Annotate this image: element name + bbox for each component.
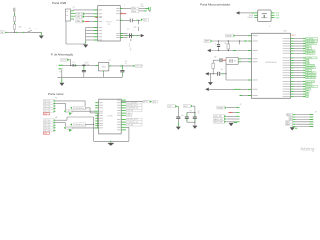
svg-text:CONTROLE_A: CONTROLE_A (74, 124, 87, 127)
label IC2 (109, 60, 112, 62)
wire battery out (63, 65, 73, 66)
wire RXD row (139, 10, 151, 11)
tiny label v (124, 4, 125, 6)
JP pin stubs left (254, 13, 258, 18)
JP pin labels left (248, 15, 254, 19)
label CONTROLE A (70, 123, 87, 127)
svg-text:PC1: PC1 (306, 89, 309, 91)
IC3 designator (284, 31, 287, 33)
svg-text:fritzing: fritzing (301, 146, 315, 151)
wire caps join (187, 119, 196, 123)
ground GND5 (176, 127, 181, 130)
wire battery gnd (61, 69, 63, 77)
wire stub down (133, 20, 138, 28)
label CONTROLE B (70, 106, 87, 110)
svg-text:Porta motor: Porta motor (48, 92, 64, 96)
bus wire 2 (86, 30, 98, 32)
wire gnd stub (130, 39, 133, 51)
svg-text:J3: J3 (315, 111, 317, 113)
resistor R5 (224, 40, 229, 50)
svg-text:PB1: PB1 (306, 48, 309, 50)
svg-text:(T1)PD5: (T1)PD5 (306, 58, 312, 60)
svg-text:Porta Microcontrolador: Porta Microcontrolador (200, 3, 230, 7)
green arrow A (69, 129, 72, 132)
wire gnd stem (110, 141, 112, 143)
capacitor C13 (193, 113, 197, 119)
svg-text:3V3: 3V3 (141, 6, 144, 8)
connector B labels (43, 98, 57, 113)
capacitor C5 (129, 33, 132, 38)
label 100n row1 (131, 7, 139, 10)
svg-text:(RXD)PD0: (RXD)PD0 (306, 86, 314, 88)
wire green seg1 (5, 31, 7, 33)
svg-text:S1: S1 (29, 28, 31, 30)
section title Porta motor (48, 92, 64, 96)
section title P de Alimentacao (51, 53, 74, 57)
connector X1 label (73, 7, 75, 9)
JP1 glyph (261, 13, 268, 18)
capacitor C11 (176, 110, 183, 119)
wire row2 (213, 40, 252, 44)
ground GND4 (107, 143, 114, 146)
svg-text:7805: 7805 (101, 66, 105, 68)
svg-text:Porta USB: Porta USB (52, 1, 66, 5)
svg-text:(SCK)PB5: (SCK)PB5 (306, 38, 313, 40)
wire X1 shield down (66, 21, 83, 44)
svg-text:IC2: IC2 (109, 60, 112, 62)
wire VCC motor (121, 100, 143, 102)
label GND short (126, 114, 131, 117)
J3 labels (286, 113, 293, 126)
label VCC MOTOR (143, 100, 157, 103)
label J2 (240, 104, 242, 106)
IC4 left pin stubs (95, 103, 99, 126)
label reset row (226, 34, 236, 37)
svg-text:RESET: RESET (218, 107, 225, 109)
ISP row3 (214, 115, 240, 118)
wire B row1 (56, 101, 86, 106)
label OUT B (64, 110, 73, 113)
ground flag ISP (229, 123, 237, 127)
svg-text:22p: 22p (221, 69, 224, 71)
IC1 FT232RL body (98, 6, 121, 41)
labels MOTOR right bottom (126, 118, 142, 126)
wire branch left (187, 113, 195, 117)
section Porta USB title (52, 1, 66, 5)
label vertical tiny (13, 8, 15, 12)
J3 vertical (292, 126, 294, 129)
bus vertical (85, 28, 87, 44)
svg-text:VCC 5V: VCC 5V (136, 66, 143, 68)
wire ctrlB right (86, 108, 98, 113)
IC4 internal label (107, 116, 113, 118)
connector A labels (43, 116, 57, 132)
arrow left JP (236, 11, 240, 14)
wire q2 out1 (238, 58, 251, 60)
svg-text:(INT0)PD1: (INT0)PD1 (306, 67, 314, 69)
connector X1 body (66, 9, 71, 21)
IC4 right pin stubs (121, 100, 126, 130)
wire vertical (14, 8, 16, 33)
IC4 pin name text (100, 100, 121, 131)
svg-text:1u: 1u (215, 44, 217, 46)
svg-text:P1: P1 (306, 91, 308, 93)
label row4 (76, 20, 85, 23)
ISP row5 (214, 120, 240, 123)
capacitor C10 (217, 72, 226, 76)
battery J1 (59, 65, 63, 74)
svg-text:DC IN: DC IN (61, 60, 67, 62)
wire reg gnd pin (103, 71, 104, 77)
svg-text:L293D: L293D (107, 116, 113, 118)
label USB_DP (76, 15, 85, 18)
wire fuse to reg (83, 65, 98, 66)
ground GND2 (83, 44, 88, 48)
label DC IN (61, 58, 70, 61)
fritzing watermark (301, 146, 315, 151)
label C12 value (190, 111, 200, 115)
IC1 pin name text (99, 8, 120, 40)
IC3 ATMEGA body (252, 33, 291, 98)
svg-text:e: e (36, 28, 37, 30)
J3 wires (293, 115, 314, 127)
wire xtal vert (212, 60, 214, 74)
wire green seg2 (16, 31, 18, 33)
battery plus (56, 64, 58, 66)
svg-text:P2: P2 (306, 96, 308, 98)
wire 3v3 cluster row3 (120, 37, 127, 39)
wire green seg3 (22, 31, 24, 33)
X1 pin3 stub (71, 15, 76, 17)
label USB_DM (76, 12, 85, 15)
svg-text:10k: 10k (19, 26, 22, 28)
svg-text:PD0: PD0 (306, 70, 309, 72)
svg-text:ATMEGA328: ATMEGA328 (266, 61, 277, 64)
crystal Q1 (130, 19, 136, 23)
wire row DM to IC (85, 13, 97, 15)
diode D1 (73, 62, 76, 67)
wire IC4 right gnd (126, 127, 129, 141)
wire green vseg1 (14, 13, 16, 15)
IC3 right pin net labels (291, 38, 318, 99)
svg-text:MOSI: MOSI (249, 15, 254, 17)
ISP row4 (214, 118, 240, 121)
wire green to junction (136, 20, 140, 21)
wire gnd drop (61, 77, 63, 82)
label net2 (183, 105, 193, 108)
wire xtal main (209, 73, 217, 74)
svg-text:Y2: Y2 (198, 111, 200, 113)
wire green vseg2 (14, 22, 16, 24)
capacitor C8 (215, 41, 221, 51)
svg-text:(INT1)PD2: (INT1)PD2 (306, 65, 314, 67)
IC1 internal label (106, 22, 111, 26)
label TXLED (141, 18, 149, 21)
wire reset row (236, 35, 252, 37)
label row2 AREF (204, 40, 213, 43)
svg-text:10u: 10u (87, 64, 90, 66)
wire 3v3 cluster row2 (120, 35, 134, 37)
wire row3 (211, 50, 252, 51)
green arrow B (69, 112, 72, 115)
svg-text:P0: P0 (306, 94, 308, 96)
svg-text:PD4: PD4 (306, 60, 309, 62)
JP1 designator (269, 26, 270, 28)
label 100n row2 (131, 10, 139, 13)
resistor R1 (14, 16, 16, 21)
capacitor C9 (214, 57, 226, 71)
svg-text:IC3: IC3 (284, 31, 287, 33)
section title Porta Microcontrolador (200, 3, 230, 7)
svg-text:X1: X1 (73, 7, 75, 9)
svg-text:10u: 10u (181, 115, 184, 117)
wire stub down2 (138, 27, 140, 31)
X1 pin1 wire (71, 10, 98, 11)
ground GND1 (39, 36, 44, 39)
resistor R2 (14, 24, 16, 29)
wire after label (139, 8, 149, 10)
red label A (43, 132, 49, 135)
wire red seg row (85, 21, 98, 23)
svg-text:AN4: AN4 (286, 123, 290, 126)
wire diode out (75, 64, 82, 66)
label gnd (129, 43, 131, 47)
crystal Q2 body (226, 57, 238, 64)
svg-text:A2: A2 (290, 118, 292, 121)
wire net2 down (194, 122, 196, 125)
svg-text:RESET: RESET (226, 35, 233, 37)
wire row bottom (209, 88, 252, 90)
arrow left row3 (207, 49, 211, 52)
svg-text:1: 1 (103, 74, 104, 76)
wire from label (69, 60, 70, 66)
wire net1 (177, 106, 178, 109)
svg-text:C8: C8 (190, 111, 192, 113)
label OUT A (64, 126, 73, 129)
capacitor C12 (185, 113, 189, 119)
net label VB (0, 31, 5, 34)
bus wire 3 (86, 33, 98, 35)
X1 pin2 stub (71, 13, 76, 15)
ISP row2 red (229, 111, 240, 113)
wire top row osc (213, 59, 219, 61)
wire red stub right (120, 12, 126, 14)
wire row 95 (240, 95, 252, 97)
svg-text:VCC: VCC (292, 35, 297, 37)
wire to arrow (132, 35, 140, 37)
svg-text:CONTROLE_B: CONTROLE_B (74, 108, 87, 110)
wire outA to IC (72, 127, 99, 129)
svg-text:1: 1 (269, 26, 270, 28)
arrow left xtal (205, 72, 209, 75)
vertical ctrlB (96, 113, 98, 128)
wire gnd rail (57, 76, 122, 78)
vertical gnd left (93, 117, 95, 141)
X1 pin4 stub (71, 19, 74, 20)
label C3 (125, 61, 127, 65)
IC3 left pin texts (252, 35, 257, 96)
wire horizontal main (5, 31, 41, 33)
svg-text:MOSI_ISP: MOSI_ISP (214, 122, 223, 124)
JP1 body (258, 10, 271, 22)
IC3 right pin texts (283, 38, 291, 97)
bus wire 5 (86, 39, 98, 41)
label VCC 5V (133, 65, 143, 68)
tiny label e (36, 28, 37, 30)
label above C6 (141, 4, 144, 8)
JP pin labels right (276, 13, 281, 20)
capacitor C2 (120, 66, 124, 77)
regulator IC2 7805 body (99, 62, 109, 71)
wire arrow to JP (240, 12, 255, 14)
labels MOTOR right top (126, 101, 142, 114)
switch S1 (24, 28, 31, 32)
wire gnd rail bottom (94, 140, 129, 142)
wire net1 down (177, 119, 179, 126)
svg-text:C1: C1 (87, 62, 89, 64)
bus wire 4 (86, 36, 98, 38)
ground GND8 (208, 82, 213, 85)
svg-text:RL: RL (108, 24, 110, 26)
wire TXD row (120, 8, 131, 10)
IC3 internal label (266, 61, 277, 64)
label net1 (168, 105, 178, 108)
capacitor C6 green (149, 7, 151, 10)
resistor R6 (212, 63, 215, 68)
bus wire 1 (86, 27, 98, 29)
svg-text:txd: txd (144, 18, 146, 21)
wire A row1 (56, 117, 94, 120)
wire ctrlA right (86, 124, 94, 125)
svg-text:1u: 1u (125, 63, 127, 65)
svg-text:D1: D1 (73, 62, 75, 64)
svg-text:J2: J2 (240, 104, 242, 106)
fuse F1 (82, 63, 86, 67)
svg-text:1n: 1n (198, 113, 200, 115)
red label B (43, 113, 49, 116)
IC4 L293D body (99, 99, 122, 134)
svg-text:22p: 22p (214, 57, 217, 59)
wire osc gnd stem (209, 74, 211, 82)
wire q2 bottom (225, 65, 251, 80)
wire net2 (193, 106, 196, 113)
ground flag J3 (290, 127, 298, 130)
ground GND6 (192, 126, 197, 129)
svg-text:22p: 22p (133, 26, 136, 28)
label 10k (19, 26, 22, 28)
capacitor C1 (82, 62, 89, 77)
ISP row1 (217, 106, 240, 109)
ground GND3 (59, 83, 64, 86)
wire q2 out2 (238, 61, 251, 63)
wire B row2 (56, 103, 66, 109)
wire to ground (32, 31, 42, 33)
arrow left row bottom (205, 88, 209, 91)
svg-text:P. de Alimentação: P. de Alimentação (51, 53, 74, 57)
label bracket (128, 28, 134, 32)
wire green stem (40, 32, 42, 35)
label red VCC (292, 35, 297, 37)
svg-text:10k: 10k (224, 43, 227, 45)
wire A row2 (56, 123, 66, 127)
JP pin stubs right (271, 13, 274, 18)
label J3 (315, 111, 317, 113)
wire reg out (109, 65, 133, 66)
wire XTAL row (120, 19, 130, 21)
svg-text:RESET: RESET (248, 17, 253, 19)
wire outB to IC (72, 110, 98, 112)
arrow right VCC (141, 34, 145, 37)
node junction (14, 32, 15, 33)
wire row DP to IC (85, 16, 98, 18)
wire red stub IC pin (95, 16, 97, 18)
svg-text:100n: 100n (132, 11, 136, 13)
wire 3v3 cluster row1 (120, 33, 127, 35)
